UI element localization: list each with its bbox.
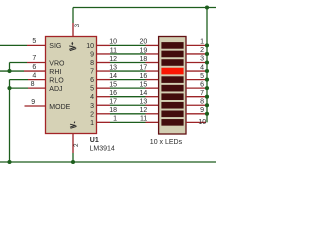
pin 15 bargraph anode xyxy=(146,87,159,89)
LED bar 8 xyxy=(161,102,183,109)
svg-text:14: 14 xyxy=(140,90,148,97)
svg-text:20: 20 xyxy=(140,39,148,46)
svg-text:8: 8 xyxy=(31,81,35,88)
pin 17 bargraph anode xyxy=(146,70,159,72)
pin 8 bargraph cathode xyxy=(186,104,206,106)
node RLO/ADJ junction xyxy=(7,86,11,90)
wire RLO down to ADJ xyxy=(9,80,11,89)
pin 2 bargraph cathode xyxy=(186,53,206,55)
node rail junction xyxy=(205,52,209,56)
wire VRO xyxy=(10,62,28,64)
svg-text:11: 11 xyxy=(110,47,117,54)
pin 12 bargraph anode xyxy=(146,113,159,115)
wire xyxy=(110,44,146,46)
svg-text:MODE: MODE xyxy=(49,104,70,111)
pin 18 LED output L2 xyxy=(97,113,111,115)
pin 4 RLO xyxy=(28,79,46,81)
svg-text:7: 7 xyxy=(32,55,36,62)
pin 1 bargraph cathode xyxy=(186,44,206,46)
pin 2 (V-) xyxy=(72,134,74,154)
svg-text:15: 15 xyxy=(109,81,117,88)
svg-text:2: 2 xyxy=(90,111,94,118)
pin 18 bargraph anode xyxy=(146,62,159,64)
pin 10 bargraph cathode xyxy=(186,121,206,123)
svg-text:8: 8 xyxy=(200,98,204,105)
svg-text:8: 8 xyxy=(90,60,94,67)
svg-text:RHI: RHI xyxy=(49,69,61,76)
svg-text:12: 12 xyxy=(140,107,148,114)
svg-text:15: 15 xyxy=(140,81,148,88)
node rail junction xyxy=(205,78,209,82)
svg-text:4: 4 xyxy=(32,72,36,79)
wire bottom rail xyxy=(0,161,216,163)
svg-text:6: 6 xyxy=(90,77,94,84)
node rail junction xyxy=(205,69,209,73)
svg-text:4: 4 xyxy=(90,94,94,101)
wire xyxy=(110,104,146,106)
wire RLO xyxy=(10,79,29,81)
svg-text:VRO: VRO xyxy=(49,60,65,67)
svg-text:5: 5 xyxy=(32,38,36,45)
svg-text:13: 13 xyxy=(140,99,148,106)
pin 15 LED output L5 xyxy=(97,87,111,89)
LED bar 2 xyxy=(161,51,183,58)
pin 3 (V+) xyxy=(72,23,74,37)
wire ADJ junction down to ground rail xyxy=(9,88,11,162)
wire ADJ xyxy=(10,87,29,89)
svg-text:14: 14 xyxy=(109,73,117,80)
wire xyxy=(110,87,146,89)
pin 5 SIG xyxy=(27,44,46,46)
svg-text:10: 10 xyxy=(86,43,94,50)
wire xyxy=(110,62,146,64)
pin 19 bargraph anode xyxy=(146,53,159,55)
node rail junction xyxy=(205,43,209,47)
svg-text:2: 2 xyxy=(73,143,80,147)
svg-text:10 x LEDs: 10 x LEDs xyxy=(150,139,183,146)
pin 8 ADJ xyxy=(28,87,46,89)
wire SIG input xyxy=(0,44,27,46)
node rail junction xyxy=(205,60,209,64)
svg-text:11: 11 xyxy=(140,116,147,123)
svg-text:LM3914: LM3914 xyxy=(90,145,115,152)
pin 3 bargraph cathode xyxy=(186,62,206,64)
svg-text:19: 19 xyxy=(140,47,148,54)
pin 9 bargraph cathode xyxy=(186,113,206,115)
pin 20 bargraph anode xyxy=(146,44,159,46)
LED bargraph body (10 x LEDs) xyxy=(159,37,186,135)
svg-text:6: 6 xyxy=(200,81,204,88)
wire right vertical rail xyxy=(206,8,208,123)
pin 13 bargraph anode xyxy=(146,104,159,106)
pin 13 LED output L7 xyxy=(97,70,111,72)
pin 14 bargraph anode xyxy=(146,96,159,98)
svg-text:18: 18 xyxy=(109,107,117,114)
svg-text:4: 4 xyxy=(200,64,204,71)
node rail junction xyxy=(205,103,209,107)
pin 11 bargraph anode xyxy=(146,121,159,123)
svg-text:2: 2 xyxy=(200,47,204,54)
wire xyxy=(110,70,146,72)
pin 5 bargraph cathode xyxy=(186,79,206,81)
svg-text:10: 10 xyxy=(198,119,206,126)
svg-text:9: 9 xyxy=(90,51,94,58)
LED bar 3 xyxy=(161,59,183,66)
pin 10 LED output L10 xyxy=(97,44,111,46)
svg-text:1: 1 xyxy=(200,39,204,46)
pin 1 LED output L1 xyxy=(97,121,111,123)
pin 11 LED output L9 xyxy=(97,53,111,55)
svg-text:9: 9 xyxy=(200,107,204,114)
wire RHI input xyxy=(0,70,24,72)
svg-text:3: 3 xyxy=(90,103,94,110)
node rail junction xyxy=(205,86,209,90)
svg-text:3: 3 xyxy=(200,56,204,63)
node left ground junction xyxy=(7,160,11,164)
U1 internal signal symbol (top) xyxy=(69,42,76,51)
svg-text:3: 3 xyxy=(74,23,81,27)
pin 9 MODE xyxy=(25,105,46,107)
pin 7 bargraph cathode xyxy=(186,96,206,98)
svg-text:SIG: SIG xyxy=(49,43,61,50)
pin 14 LED output L6 xyxy=(97,79,111,81)
svg-text:10: 10 xyxy=(109,39,117,46)
LED bar 10 xyxy=(161,119,183,126)
wire VRO down to RHI xyxy=(9,63,11,72)
node rail junction xyxy=(205,112,209,116)
pin 6 bargraph cathode xyxy=(186,87,206,89)
pin 12 LED output L8 xyxy=(97,62,111,64)
svg-text:12: 12 xyxy=(109,56,117,63)
svg-text:17: 17 xyxy=(140,64,148,71)
pin 16 bargraph anode xyxy=(146,79,159,81)
pin 7 VRO xyxy=(27,62,46,64)
LED bar 7 xyxy=(161,93,183,100)
svg-text:9: 9 xyxy=(31,99,35,106)
U1 internal signal symbol (bottom) xyxy=(70,122,77,129)
svg-text:5: 5 xyxy=(90,86,94,93)
svg-text:13: 13 xyxy=(109,64,117,71)
svg-text:1: 1 xyxy=(90,120,94,127)
svg-text:U1: U1 xyxy=(90,137,99,144)
svg-text:ADJ: ADJ xyxy=(49,86,62,93)
wire xyxy=(110,96,146,98)
node rail junction xyxy=(205,95,209,99)
svg-text:16: 16 xyxy=(140,73,148,80)
LED bar 1 xyxy=(161,42,183,49)
svg-text:16: 16 xyxy=(109,90,117,97)
node top-right junction xyxy=(205,5,209,9)
pin 4 bargraph cathode xyxy=(186,70,206,72)
svg-text:1: 1 xyxy=(113,116,117,123)
svg-text:7: 7 xyxy=(200,90,204,97)
LED bar 4 xyxy=(161,68,183,75)
wire xyxy=(110,79,146,81)
node pin2-rail junction xyxy=(71,160,75,164)
pin 6 RHI xyxy=(24,70,46,72)
op-amp U1 LM3914 body xyxy=(46,37,97,134)
wire xyxy=(110,121,146,123)
LED bar 5 xyxy=(161,76,183,83)
wire top V+ rail xyxy=(73,7,216,9)
svg-text:17: 17 xyxy=(109,99,117,106)
wire xyxy=(110,53,146,55)
LED bar 9 xyxy=(161,111,183,118)
svg-text:5: 5 xyxy=(200,73,204,80)
wire V+ to pin 3 xyxy=(72,8,74,24)
svg-text:18: 18 xyxy=(140,56,148,63)
svg-text:7: 7 xyxy=(90,69,94,76)
wire xyxy=(110,113,146,115)
wire pin 2 to ground rail xyxy=(72,153,74,162)
LED bar 6 xyxy=(161,85,183,92)
pin 17 LED output L3 xyxy=(97,104,111,106)
node VRO/RHI junction xyxy=(7,69,11,73)
svg-text:RLO: RLO xyxy=(49,77,64,84)
pin 16 LED output L4 xyxy=(97,96,111,98)
svg-text:6: 6 xyxy=(32,64,36,71)
